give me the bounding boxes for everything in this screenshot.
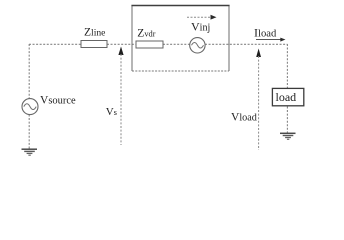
wire: from Vsource bottom down to ground bbox=[28, 115, 30, 149]
svg-text:Vsource: Vsource bbox=[40, 95, 76, 107]
ground (right, under load) bbox=[280, 133, 296, 139]
measurement arrow Vload (points up at load node) bbox=[256, 49, 261, 151]
ground (left, under Vsource) bbox=[22, 149, 38, 155]
load box bbox=[272, 88, 303, 105]
svg-text:load: load bbox=[276, 90, 297, 104]
svg-text:Vs: Vs bbox=[106, 106, 117, 118]
svg-text:Zvdr: Zvdr bbox=[137, 28, 155, 40]
AC source Vinj bbox=[190, 38, 205, 53]
measurement arrow Vs (points up at node between Zline and Zvdr) bbox=[118, 47, 123, 146]
wire: top horizontal from left corner to Zline bbox=[29, 43, 81, 45]
VDR dashed enclosure box bbox=[131, 5, 229, 71]
svg-text:Iload: Iload bbox=[254, 26, 277, 40]
wire: between Zvdr and Vinj source bbox=[163, 43, 190, 45]
AC source Vsource bbox=[22, 99, 38, 115]
wire: right vertical from top corner down to load box bbox=[286, 44, 288, 88]
wire: left vertical from corner down to Vsource bbox=[28, 44, 30, 99]
arrow Iload (pointing right, above wire) bbox=[256, 38, 286, 42]
wire: from Vinj source to top-right corner bbox=[205, 43, 287, 45]
wire: between Zline and Zvdr (crosses dashed box left edge) bbox=[107, 43, 136, 45]
svg-text:Zline: Zline bbox=[84, 27, 105, 39]
wire: from load box bottom down to ground bbox=[286, 107, 288, 133]
resistor Zline bbox=[81, 41, 107, 48]
resistor Zvdr bbox=[136, 41, 163, 48]
svg-text:Vload: Vload bbox=[231, 112, 257, 124]
svg-text:Vinj: Vinj bbox=[191, 20, 210, 34]
arrow above Vinj (pointing right) bbox=[187, 15, 217, 20]
